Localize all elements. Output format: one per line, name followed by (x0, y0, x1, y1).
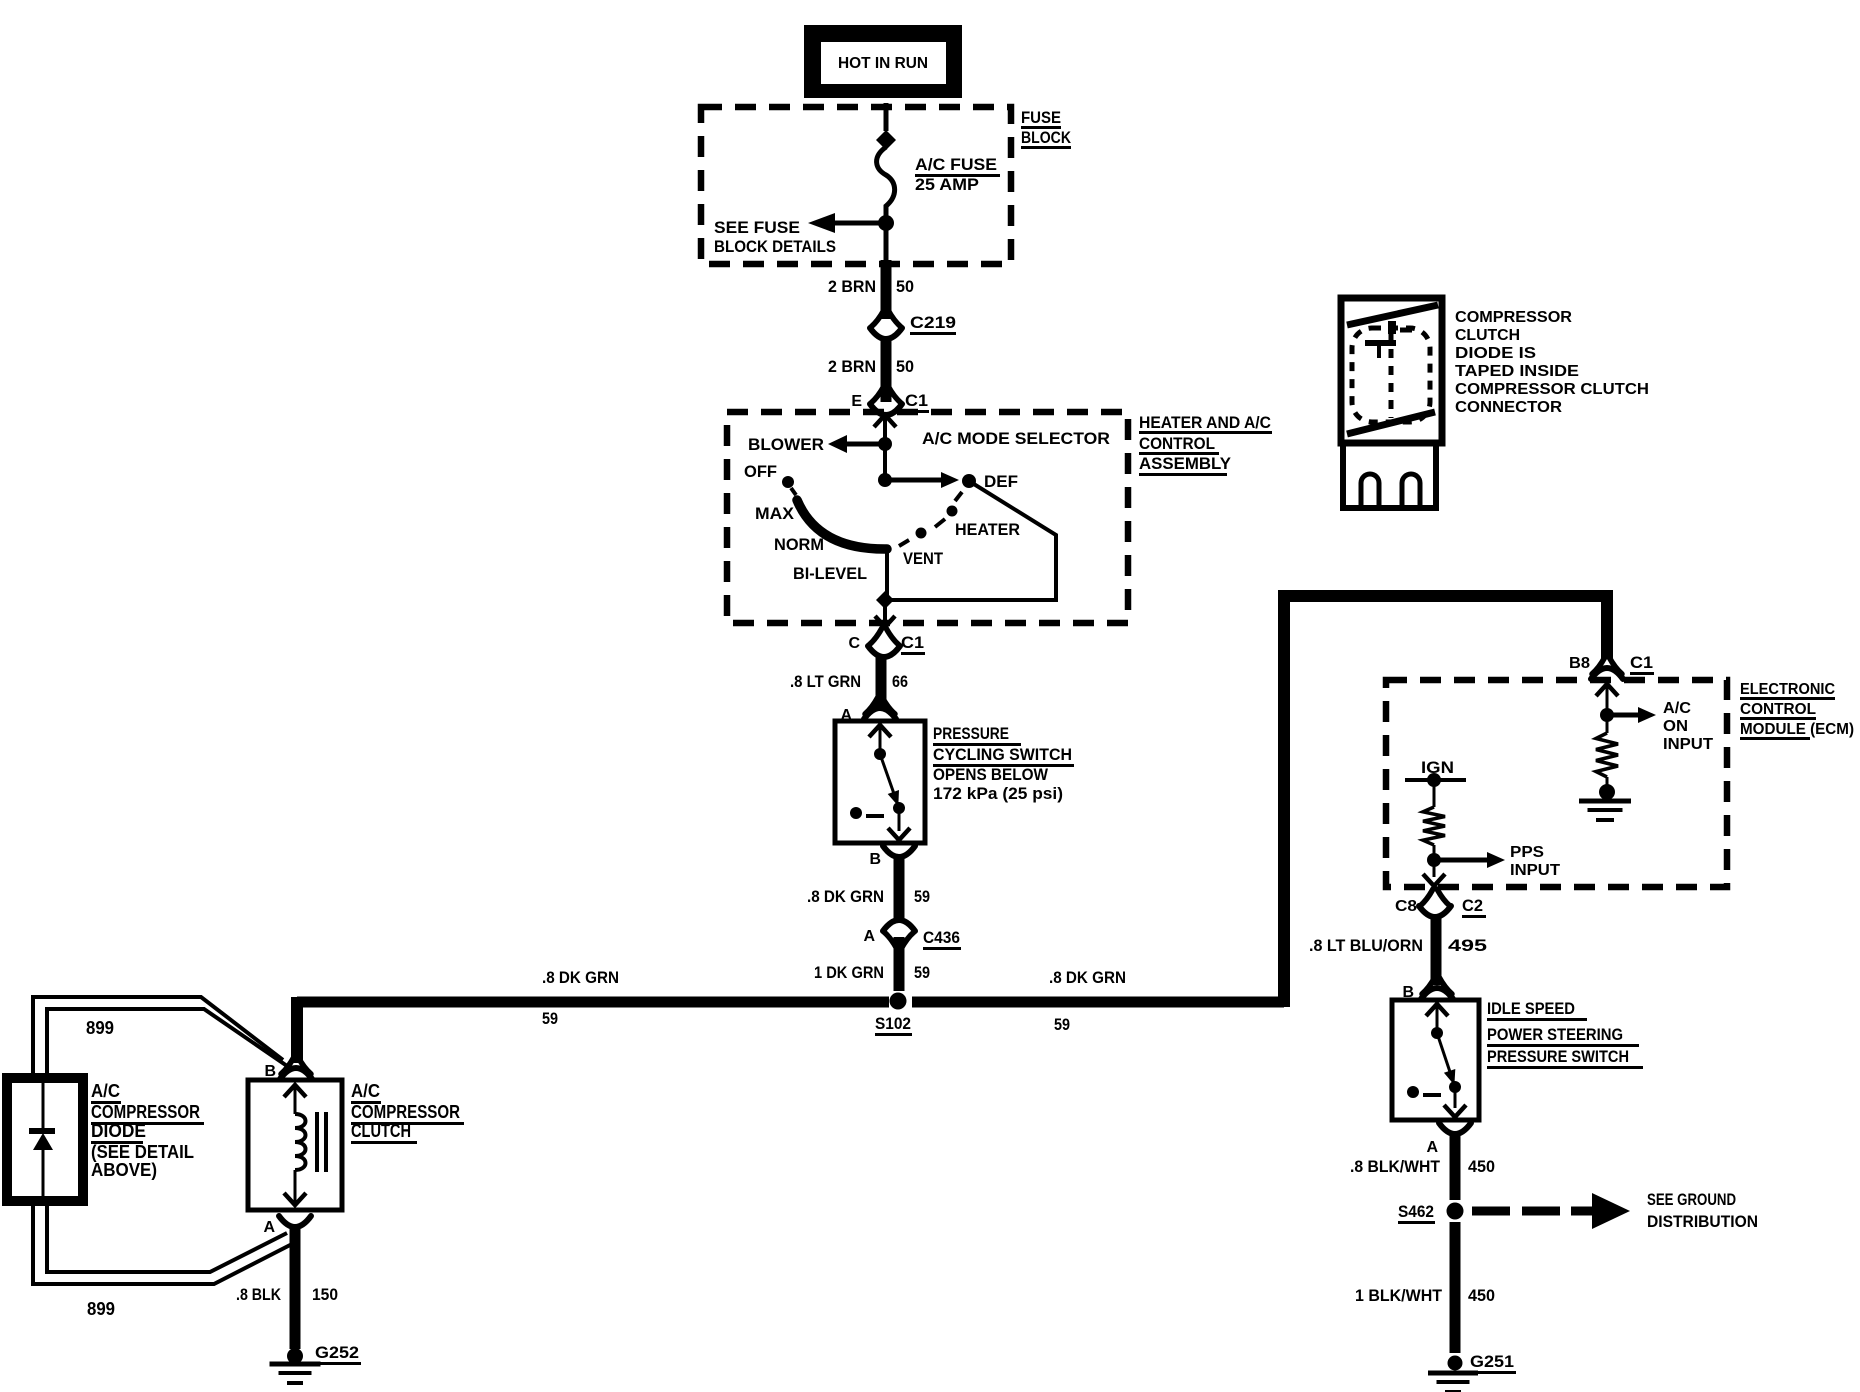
svg-text:CYCLING SWITCH: CYCLING SWITCH (933, 745, 1072, 764)
svg-text:MAX: MAX (755, 504, 795, 523)
svg-text:ASSEMBLY: ASSEMBLY (1139, 454, 1232, 473)
svg-text:25 AMP: 25 AMP (915, 175, 979, 194)
svg-text:59: 59 (914, 887, 930, 906)
svg-text:172 kPa (25 psi): 172 kPa (25 psi) (933, 784, 1063, 803)
svg-text:DISTRIBUTION: DISTRIBUTION (1647, 1212, 1758, 1231)
svg-text:C: C (848, 635, 860, 652)
svg-text:COMPRESSOR CLUTCH: COMPRESSOR CLUTCH (1455, 381, 1649, 398)
svg-text:ELECTRONIC: ELECTRONIC (1740, 681, 1835, 698)
svg-text:BLOCK DETAILS: BLOCK DETAILS (714, 237, 836, 256)
svg-text:VENT: VENT (903, 549, 944, 568)
svg-text:495: 495 (1448, 936, 1487, 955)
svg-text:PRESSURE SWITCH: PRESSURE SWITCH (1487, 1047, 1629, 1066)
svg-text:CONTROL: CONTROL (1740, 701, 1816, 718)
svg-text:BLOWER: BLOWER (748, 435, 824, 454)
svg-text:IDLE SPEED: IDLE SPEED (1487, 999, 1575, 1018)
svg-text:.8 BLK: .8 BLK (236, 1285, 282, 1304)
svg-text:.8 LT BLU/ORN: .8 LT BLU/ORN (1309, 936, 1423, 955)
svg-text:S462: S462 (1398, 1202, 1434, 1221)
svg-text:SEE FUSE: SEE FUSE (714, 218, 800, 237)
svg-text:B: B (264, 1063, 276, 1080)
svg-text:BLOCK: BLOCK (1021, 128, 1072, 147)
svg-text:C1: C1 (905, 391, 928, 410)
svg-text:PPS: PPS (1510, 844, 1544, 861)
svg-text:INPUT: INPUT (1663, 736, 1713, 753)
svg-text:.8 BLK/WHT: .8 BLK/WHT (1350, 1157, 1441, 1176)
svg-text:A: A (263, 1219, 275, 1236)
svg-text:.8 LT GRN: .8 LT GRN (790, 672, 861, 691)
svg-text:.8 DK GRN: .8 DK GRN (542, 968, 619, 987)
svg-text:A/C: A/C (351, 1081, 380, 1101)
svg-text:ABOVE): ABOVE) (91, 1160, 157, 1180)
svg-text:59: 59 (542, 1009, 558, 1028)
svg-text:S102: S102 (875, 1014, 911, 1033)
svg-text:OPENS BELOW: OPENS BELOW (933, 765, 1049, 784)
svg-text:SEE GROUND: SEE GROUND (1647, 1190, 1736, 1209)
svg-text:59: 59 (914, 963, 930, 982)
svg-text:FUSE: FUSE (1021, 108, 1061, 127)
svg-text:COMPRESSOR: COMPRESSOR (351, 1102, 460, 1122)
svg-text:899: 899 (86, 1018, 114, 1038)
svg-text:MODULE (ECM): MODULE (ECM) (1740, 721, 1854, 738)
svg-text:COMPRESSOR: COMPRESSOR (1455, 309, 1572, 326)
svg-text:E: E (851, 393, 862, 410)
svg-text:TAPED INSIDE: TAPED INSIDE (1455, 363, 1579, 380)
svg-text:C1: C1 (1630, 653, 1653, 672)
svg-text:G251: G251 (1470, 1352, 1514, 1371)
svg-text:PRESSURE: PRESSURE (933, 724, 1009, 743)
svg-text:OFF: OFF (744, 462, 777, 481)
svg-text:C1: C1 (901, 633, 924, 652)
svg-text:450: 450 (1468, 1286, 1495, 1305)
svg-text:2 BRN: 2 BRN (828, 357, 876, 376)
svg-text:A: A (1426, 1139, 1438, 1156)
svg-text:.8 DK GRN: .8 DK GRN (807, 887, 884, 906)
svg-text:2 BRN: 2 BRN (828, 277, 876, 296)
svg-text:50: 50 (896, 357, 914, 376)
svg-text:C436: C436 (923, 928, 960, 947)
svg-text:HEATER: HEATER (955, 520, 1020, 539)
svg-text:CONTROL: CONTROL (1139, 434, 1215, 453)
svg-text:DIODE: DIODE (91, 1121, 146, 1141)
svg-text:899: 899 (87, 1299, 115, 1319)
svg-text:DIODE IS: DIODE IS (1455, 345, 1536, 362)
svg-text:G252: G252 (315, 1343, 359, 1362)
svg-text:A/C MODE SELECTOR: A/C MODE SELECTOR (922, 429, 1110, 448)
svg-text:1 BLK/WHT: 1 BLK/WHT (1355, 1286, 1443, 1305)
svg-text:(SEE DETAIL: (SEE DETAIL (91, 1142, 194, 1162)
svg-text:ON: ON (1663, 718, 1688, 735)
svg-text:C219: C219 (910, 313, 956, 332)
svg-text:A/C: A/C (91, 1081, 120, 1101)
svg-text:COMPRESSOR: COMPRESSOR (91, 1102, 200, 1122)
svg-text:DEF: DEF (984, 472, 1018, 491)
svg-text:1 DK GRN: 1 DK GRN (814, 963, 884, 982)
svg-text:BI-LEVEL: BI-LEVEL (793, 564, 867, 583)
svg-text:A: A (863, 928, 875, 945)
svg-text:C8: C8 (1395, 898, 1417, 915)
svg-text:CONNECTOR: CONNECTOR (1455, 399, 1562, 416)
svg-text:59: 59 (1054, 1015, 1070, 1034)
svg-text:C2: C2 (1462, 896, 1483, 915)
svg-text:HEATER AND A/C: HEATER AND A/C (1139, 413, 1271, 432)
svg-text:150: 150 (312, 1285, 338, 1304)
svg-text:450: 450 (1468, 1157, 1495, 1176)
svg-text:B8: B8 (1569, 655, 1590, 672)
svg-text:A/C: A/C (1663, 700, 1691, 717)
svg-text:A/C FUSE: A/C FUSE (915, 155, 997, 174)
svg-text:66: 66 (892, 672, 908, 691)
svg-text:B: B (869, 851, 881, 868)
svg-text:HOT IN RUN: HOT IN RUN (838, 55, 928, 72)
svg-text:50: 50 (896, 277, 914, 296)
svg-text:NORM: NORM (774, 535, 824, 554)
svg-text:POWER STEERING: POWER STEERING (1487, 1025, 1623, 1044)
svg-text:INPUT: INPUT (1510, 862, 1560, 879)
svg-text:CLUTCH: CLUTCH (1455, 327, 1520, 344)
svg-text:.8 DK GRN: .8 DK GRN (1049, 968, 1126, 987)
svg-text:CLUTCH: CLUTCH (351, 1121, 411, 1141)
